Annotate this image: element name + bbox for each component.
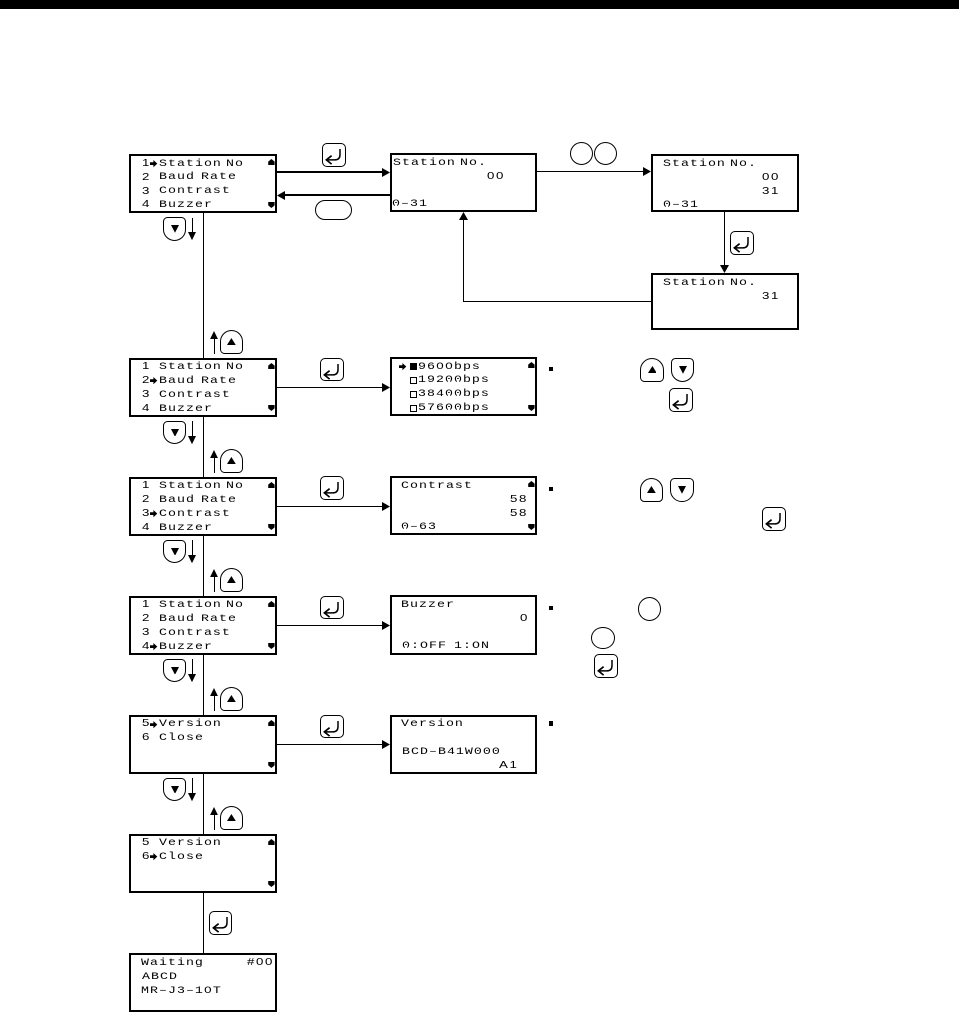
return arrow station screen to menu1: [285, 194, 391, 195]
LCD box: menu screen 3 (Contrast selected): [129, 477, 277, 536]
bullet dot row2: [549, 367, 553, 371]
up arrow above menu3: [210, 450, 218, 458]
vertical line menu4 to menu5: [203, 655, 204, 715]
arrow menu2 to baud screen: [277, 387, 383, 388]
down arrow below menu5: [192, 778, 193, 794]
station 00/31 screen text: [663, 158, 726, 172]
LCD box: menu screen 5 (Version selected): [129, 715, 277, 774]
down key below menu2: [163, 421, 186, 445]
down key below menu4: [163, 659, 186, 683]
buzzer screen text: [401, 599, 455, 613]
LCD box: Version screen: [390, 715, 537, 774]
digit key circle 2: [594, 142, 617, 165]
arrow 00/31 screen down to 31 screen: [724, 212, 725, 265]
LCD box: Baud rate selection screen: [390, 357, 537, 416]
down arrow below menu3: [192, 540, 193, 556]
up key row3: [640, 478, 664, 502]
up key above menu6: [220, 806, 243, 830]
LCD box: menu screen 6 (Close selected): [129, 834, 277, 893]
contrast screen text: [401, 480, 473, 494]
blank stadium key (back): [315, 200, 352, 220]
bullet dot row4: [549, 606, 553, 610]
down key row2: [671, 358, 695, 382]
waiting screen text: [141, 957, 204, 971]
version screen text: [401, 718, 464, 732]
up key above menu2: [220, 330, 243, 354]
LCD box: Waiting screen: [129, 953, 277, 1012]
digit circle row4b: [591, 627, 615, 650]
station 31 screen text: [663, 277, 726, 291]
enter key menu3 row: [320, 476, 344, 500]
enter key between menu6 and waiting: [209, 911, 233, 935]
LCD box: menu screen 4 (Buzzer selected): [129, 596, 277, 655]
down key below menu1: [163, 217, 186, 241]
digit circle row4a: [638, 597, 661, 621]
vertical line menu3 to menu4: [203, 536, 204, 596]
menu 5 text: [142, 717, 151, 731]
LCD box: Contrast screen: [390, 476, 537, 535]
menu 6 text: [142, 836, 151, 850]
bullet dot row3: [549, 487, 553, 491]
up key row2: [640, 358, 664, 382]
vertical line menu2 to menu3: [203, 417, 204, 477]
LCD box: Station No. 00/31 screen: [651, 154, 799, 212]
baud rate screen text: [399, 363, 407, 371]
bullet dot row5: [549, 721, 553, 725]
enter key menu4 row: [320, 596, 344, 620]
up arrow above menu2: [210, 331, 218, 339]
up arrow above menu4: [210, 569, 218, 577]
vertical line menu1 to menu2: [203, 213, 204, 358]
LCD box: Station No. 31 confirmed screen: [651, 273, 799, 330]
down key below menu3: [163, 540, 186, 564]
arrow menu5 to version screen: [277, 744, 383, 745]
menu 1 text: [142, 157, 151, 171]
menu 2 text: [142, 360, 151, 374]
menu 3 text: [142, 479, 151, 493]
top black header bar: [0, 0, 959, 9]
LCD box: menu screen 1 (Station No selected): [129, 154, 277, 213]
enter key menu1 row: [322, 143, 346, 167]
enter key row3: [762, 507, 786, 531]
feedback line 31 screen back to station screen: [463, 301, 651, 302]
down key row3: [670, 478, 694, 502]
enter key row2: [669, 388, 693, 412]
up key above menu5: [220, 687, 243, 711]
LCD box: Buzzer screen: [390, 595, 537, 655]
up key above menu3: [220, 449, 243, 473]
arrow station screen to 00/31 screen: [537, 171, 644, 172]
down arrow below menu2: [192, 421, 193, 437]
enter key menu5 row: [320, 715, 344, 739]
menu 4 text: [142, 598, 151, 612]
vertical line menu5 to menu6: [203, 774, 204, 834]
arrow menu4 to buzzer screen: [277, 625, 383, 626]
LCD box: menu screen 2 (Baud Rate selected): [129, 358, 277, 417]
up arrow above menu6: [210, 807, 218, 815]
down arrow below menu1: [192, 218, 193, 234]
arrow menu1 to station screen: [277, 171, 383, 172]
vertical line menu6 to waiting screen: [203, 893, 204, 953]
digit key circle 1: [570, 142, 593, 165]
down key below menu5: [163, 778, 186, 802]
arrow menu3 to contrast screen: [277, 506, 383, 507]
LCD box: Station No. entry screen: [390, 153, 537, 212]
enter key on far right vertical: [730, 231, 754, 255]
enter key row4: [594, 654, 618, 678]
station entry screen text: [393, 157, 456, 171]
up key above menu4: [220, 568, 243, 592]
up arrow above menu5: [210, 688, 218, 696]
enter key menu2 row: [320, 358, 344, 382]
down arrow below menu4: [192, 659, 193, 675]
